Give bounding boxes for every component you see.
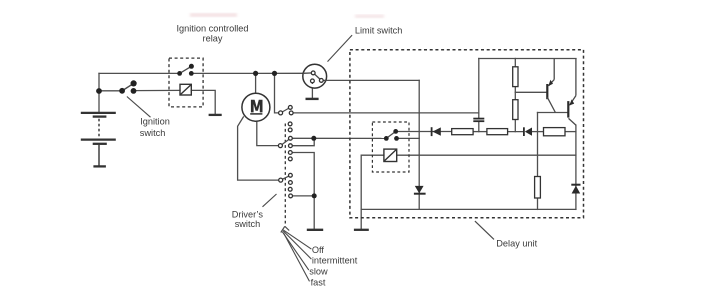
wire motor feed vertical <box>255 73 257 93</box>
wire capacitor bottom lead <box>478 122 480 132</box>
ground driver's switch <box>307 229 323 231</box>
wire driver switch pole1 feed <box>275 73 279 113</box>
pink smudge top-right <box>355 15 384 19</box>
wire delay main vertical <box>418 80 420 209</box>
transistor Q1 <box>547 59 555 113</box>
resistor R1 <box>513 67 518 87</box>
wire pole2 earth contact down-link <box>290 153 314 230</box>
leader line slow <box>282 232 309 270</box>
motor M1 <box>242 93 270 121</box>
svg-text:fast: fast <box>311 277 326 287</box>
wire row right segment <box>565 131 576 133</box>
wire battery vertical drop <box>98 73 100 113</box>
wire Q2 base bias vertical <box>537 113 539 177</box>
wire Q1 base <box>515 91 547 93</box>
relay K2 coil <box>384 149 397 161</box>
limit switch SW2 <box>303 64 327 88</box>
ground relay coil <box>209 114 222 116</box>
wire R1-R2 mid link <box>514 87 516 100</box>
leader line Off <box>283 230 311 249</box>
ground delay unit left <box>354 229 369 231</box>
wire resistor R1 top lead <box>514 59 516 67</box>
capacitor C1 <box>473 119 484 122</box>
leader line intermittent <box>283 231 311 259</box>
svg-text:Ignition controlled: Ignition controlled <box>176 23 248 33</box>
leader line driver's switch label <box>263 194 277 207</box>
driver's switch pole3 lever <box>281 175 291 180</box>
resistor R3 <box>544 128 566 136</box>
relay K1 contact <box>177 64 194 76</box>
leader line fast <box>284 233 310 281</box>
wire motor left to pole3 <box>238 117 279 180</box>
wire row mid segment 1 <box>473 131 487 133</box>
diode D3 <box>414 186 426 194</box>
svg-text:Driver’s: Driver’s <box>232 209 264 219</box>
wire capacitor top lead <box>478 59 480 119</box>
relay K1 dashed enclosure <box>169 58 203 107</box>
wire ignition switch to relay coil <box>134 89 181 91</box>
svg-text:slow: slow <box>309 267 328 277</box>
relay K2 dashed enclosure <box>372 122 409 172</box>
svg-text:Ignition: Ignition <box>140 117 170 127</box>
node pole2 junction <box>311 136 316 141</box>
wire delay coil to Q2 collector <box>397 154 576 156</box>
wire motor bottom to pole2 <box>257 121 279 146</box>
driver's switch pole2 lever <box>280 139 290 146</box>
node pole1 feed <box>272 71 277 76</box>
wire relay contact to limit switch <box>191 72 303 74</box>
resistor R4 <box>535 177 541 199</box>
leader line delay unit label <box>475 221 494 239</box>
driver's switch dashed bar <box>284 124 286 227</box>
diode D1 <box>432 127 441 136</box>
wire pole2 aux contact up-link <box>290 138 314 145</box>
wire limit switch earth drop <box>311 83 313 99</box>
wire delay relay output <box>397 137 420 139</box>
wire R4 bottom lead <box>537 198 539 209</box>
ignition switch SW1 <box>119 80 137 94</box>
wire delay coil left to earth vertical <box>361 155 384 230</box>
node pole3 earth junction <box>312 193 317 198</box>
resistor R5 <box>452 129 473 135</box>
wire relay coil to earth <box>191 90 215 115</box>
node battery junction <box>96 88 102 94</box>
wire row mid segment 3 <box>532 131 544 133</box>
svg-text:Delay unit: Delay unit <box>496 239 537 249</box>
wire pole1 contact to capacitor node <box>291 112 479 114</box>
resistor R2 <box>513 100 518 120</box>
wire battery junction to ignition switch <box>99 90 122 92</box>
wire bottom rail <box>361 208 576 210</box>
transistor Q2 <box>568 59 576 126</box>
node motor feed <box>253 71 258 76</box>
ground battery <box>93 165 106 167</box>
wire battery to relay contact (top feed) <box>99 72 180 74</box>
wire Q2 collector vertical <box>575 125 577 209</box>
driver's switch moving contacts <box>278 111 282 182</box>
position arrow head <box>281 226 289 232</box>
battery B1 <box>81 113 116 166</box>
svg-text:relay: relay <box>203 33 223 43</box>
wire resistor R2 bottom lead <box>514 120 516 132</box>
wire pole3 contact to earth line <box>290 195 314 197</box>
wire pole2 contact to delay relay <box>290 137 386 139</box>
svg-text:switch: switch <box>140 128 166 138</box>
diode D4 <box>571 185 580 194</box>
driver's switch pole1 lever <box>281 107 291 113</box>
delay unit dashed enclosure <box>350 50 584 218</box>
wire delay relay lever tip to row <box>396 131 452 133</box>
driver's switch fixed contacts <box>288 106 293 198</box>
relay K2 contact <box>384 129 399 141</box>
svg-text:Off: Off <box>312 245 325 255</box>
leader line limit switch label <box>328 35 353 62</box>
wire row mid segment 2 <box>508 131 524 133</box>
diode D2 <box>524 127 532 136</box>
pink smudge top-left <box>190 13 237 17</box>
relay K1 coil <box>180 84 191 95</box>
wire Q2 base <box>538 112 569 114</box>
wire limit switch to delay unit <box>323 79 419 81</box>
ground limit switch <box>306 98 319 100</box>
resistor R6 <box>487 129 508 135</box>
wire top rail <box>479 58 576 60</box>
leader line ignition switch label <box>127 97 151 118</box>
svg-text:intermittent: intermittent <box>312 256 358 266</box>
svg-text:Limit switch: Limit switch <box>355 26 402 36</box>
svg-text:switch: switch <box>235 219 261 229</box>
